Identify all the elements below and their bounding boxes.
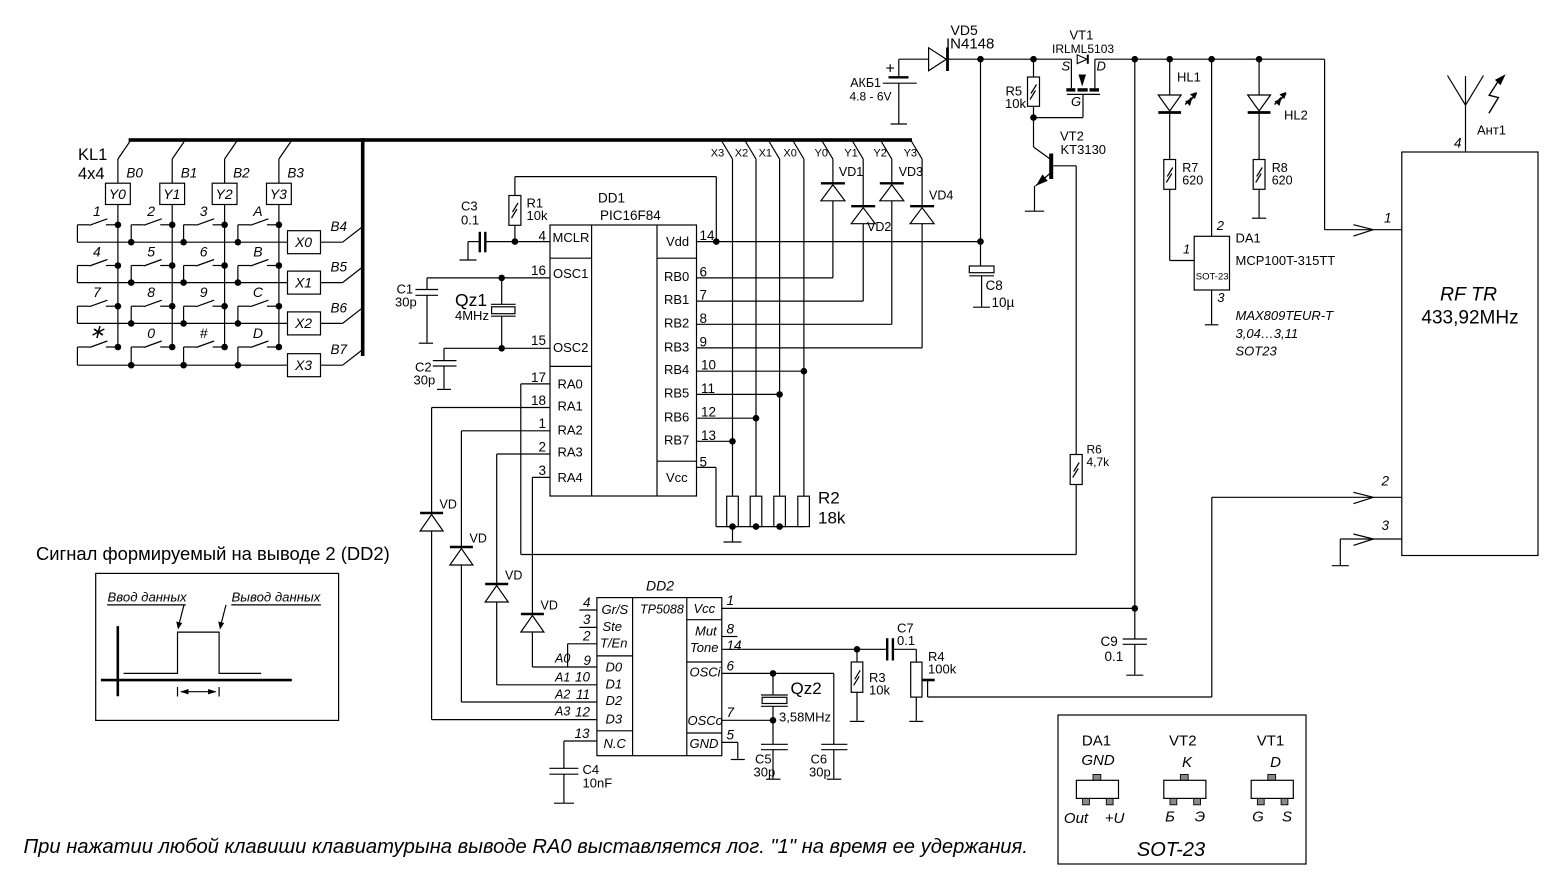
svg-text:Y3: Y3 bbox=[904, 148, 917, 160]
wire Y0 column bbox=[832, 159, 834, 183]
svg-text:KT3130: KT3130 bbox=[1061, 142, 1107, 157]
svg-text:7: 7 bbox=[727, 705, 735, 720]
resistor R1 10k bbox=[509, 196, 521, 226]
svg-text:TP5088: TP5088 bbox=[640, 603, 684, 617]
svg-text:VT1: VT1 bbox=[1070, 28, 1094, 43]
trimmer R4 100k bbox=[915, 649, 917, 662]
diode VD4 bbox=[910, 205, 934, 207]
wire RA2 bbox=[461, 430, 550, 432]
wire X2 column bbox=[755, 159, 757, 496]
svg-text:T/En: T/En bbox=[600, 636, 627, 651]
resistor R6 4,7k bbox=[1070, 455, 1082, 485]
svg-text:8: 8 bbox=[700, 311, 708, 326]
svg-text:9: 9 bbox=[583, 653, 591, 668]
wire rail to RF pin1 bbox=[1324, 59, 1326, 230]
svg-text:30p: 30p bbox=[754, 765, 776, 780]
svg-text:10k: 10k bbox=[527, 208, 548, 223]
svg-text:DA1: DA1 bbox=[1082, 733, 1111, 750]
wire Vdd pin14 to power bbox=[697, 241, 981, 243]
wire R8 to ground bbox=[1258, 189, 1260, 217]
svg-text:10k: 10k bbox=[1005, 96, 1026, 111]
svg-text:PIC16F84: PIC16F84 bbox=[600, 208, 661, 223]
svg-text:2: 2 bbox=[582, 629, 591, 644]
wire RB0 bbox=[697, 277, 833, 279]
key B (switch) bbox=[267, 265, 279, 267]
key 0 (switch) bbox=[160, 346, 172, 348]
wire Y1 column vertical bbox=[171, 205, 173, 348]
SOT-23 package drawing (VT1) bbox=[1268, 775, 1276, 781]
svg-text:18: 18 bbox=[531, 393, 546, 408]
svg-text:Y2: Y2 bbox=[873, 148, 886, 160]
pin 7 OSCo wire bbox=[722, 719, 773, 721]
svg-text:GND: GND bbox=[1081, 752, 1115, 769]
svg-text:6: 6 bbox=[727, 659, 735, 674]
ground (DD2 GND) bbox=[731, 759, 745, 761]
svg-text:OSCi: OSCi bbox=[690, 665, 722, 680]
svg-text:7: 7 bbox=[93, 284, 102, 300]
svg-text:RB2: RB2 bbox=[664, 315, 689, 330]
svg-text:1: 1 bbox=[1183, 242, 1190, 257]
svg-text:KL1: KL1 bbox=[78, 146, 107, 164]
svg-text:SOT23: SOT23 bbox=[1236, 344, 1278, 359]
diode VD (on RA4 line) bbox=[521, 613, 544, 615]
svg-text:C: C bbox=[253, 284, 264, 300]
wire RA0 pin17 bbox=[521, 383, 550, 385]
ground (battery) bbox=[891, 123, 908, 125]
node X2: slant + label bbox=[746, 142, 757, 160]
svg-text:B0: B0 bbox=[126, 166, 143, 181]
svg-text:0.1: 0.1 bbox=[897, 633, 915, 648]
svg-text:10k: 10k bbox=[869, 683, 890, 698]
X0 box bbox=[288, 231, 321, 254]
svg-text:RA0: RA0 bbox=[558, 377, 583, 392]
svg-text:433,92MHz: 433,92MHz bbox=[1421, 308, 1518, 329]
voltage supervisor DA1 (SOT-23 box) bbox=[1194, 236, 1229, 290]
svg-text:Vdd: Vdd bbox=[666, 234, 689, 249]
ground (DA1 pin3) bbox=[1205, 324, 1219, 326]
svg-text:2: 2 bbox=[1216, 218, 1225, 233]
capacitor C9 0.1 bbox=[1123, 638, 1147, 640]
wire RB3 bbox=[697, 347, 923, 349]
node Y2: slant + label bbox=[881, 142, 892, 160]
svg-text:8: 8 bbox=[147, 284, 155, 300]
svg-text:Э: Э bbox=[1195, 809, 1205, 826]
wire X3 to bus / B7 bbox=[321, 364, 343, 366]
svg-text:VD4: VD4 bbox=[929, 189, 953, 203]
svg-text:VD: VD bbox=[541, 599, 558, 613]
svg-text:0.1: 0.1 bbox=[1105, 649, 1124, 664]
svg-text:RB0: RB0 bbox=[664, 269, 689, 284]
svg-text:B3: B3 bbox=[287, 166, 304, 181]
VT2 emitter with arrow bbox=[1036, 173, 1052, 186]
svg-text:4: 4 bbox=[583, 595, 591, 610]
wire X3 column bbox=[732, 159, 734, 496]
node X1: slant + label bbox=[769, 142, 780, 160]
svg-text:RA4: RA4 bbox=[558, 470, 583, 485]
svg-text:R2: R2 bbox=[818, 489, 840, 508]
LED HL2 emission arrows bbox=[1275, 94, 1287, 105]
ground (C5) bbox=[766, 778, 781, 780]
svg-text:RA3: RA3 bbox=[558, 445, 583, 460]
resistor network R2 18k bbox=[727, 496, 739, 526]
VT1 substrate arrow bbox=[1079, 75, 1087, 87]
ground (C1) bbox=[419, 342, 433, 344]
svg-text:6: 6 bbox=[700, 265, 708, 280]
svg-text:X2: X2 bbox=[294, 315, 312, 331]
svg-text:3,58MHz: 3,58MHz bbox=[779, 710, 831, 725]
wire OSC2 pin15 bbox=[444, 347, 550, 349]
svg-text:G: G bbox=[1252, 809, 1264, 826]
capacitor C8 10u electrolytic bbox=[969, 266, 994, 273]
node Y0: slant + label bbox=[822, 142, 833, 160]
svg-text:Сигнал формируемый на выводе 2: Сигнал формируемый на выводе 2 (DD2) bbox=[36, 543, 390, 564]
svg-text:+: + bbox=[886, 61, 895, 78]
ground (RF pin3) bbox=[1332, 565, 1349, 567]
svg-text:DD1: DD1 bbox=[598, 191, 625, 206]
wire Y3 column bbox=[921, 159, 923, 206]
svg-text:1: 1 bbox=[93, 203, 101, 219]
wire X2 to bus / B6 bbox=[321, 322, 343, 324]
wire RA3 bbox=[497, 453, 550, 455]
svg-text:S: S bbox=[1282, 809, 1292, 826]
svg-text:X0: X0 bbox=[294, 234, 312, 250]
svg-text:620: 620 bbox=[1182, 174, 1203, 188]
svg-text:2: 2 bbox=[538, 440, 546, 455]
resistor R3 10k bbox=[856, 649, 858, 662]
LED HL1 emission arrows bbox=[1185, 94, 1197, 105]
RF pin2 arrow bbox=[1353, 492, 1373, 497]
wire RA1 diode to A3 bbox=[431, 531, 433, 720]
svg-text:MAX809TEUR-T: MAX809TEUR-T bbox=[1236, 308, 1335, 323]
antenna Ant1 bbox=[1465, 76, 1467, 152]
svg-text:3: 3 bbox=[200, 203, 208, 219]
svg-text:VT2: VT2 bbox=[1169, 733, 1197, 750]
LED HL1 bbox=[1169, 59, 1171, 95]
wire rail after VT1 drain bbox=[1095, 58, 1325, 60]
svg-text:11: 11 bbox=[701, 381, 715, 396]
svg-text:IRLML5103: IRLML5103 bbox=[1052, 42, 1114, 56]
svg-text:3,04…3,11: 3,04…3,11 bbox=[1236, 326, 1299, 341]
node Y1: slant + label bbox=[853, 142, 864, 160]
svg-text:B4: B4 bbox=[331, 219, 348, 234]
svg-text:4: 4 bbox=[93, 244, 101, 260]
X1 box bbox=[288, 271, 321, 294]
svg-text:X0: X0 bbox=[783, 148, 796, 160]
svg-text:8: 8 bbox=[727, 622, 735, 637]
svg-text:N.C: N.C bbox=[604, 736, 627, 751]
svg-text:5: 5 bbox=[727, 728, 735, 743]
svg-text:X3: X3 bbox=[294, 357, 312, 373]
svg-text:RA1: RA1 bbox=[558, 399, 583, 414]
svg-text:4: 4 bbox=[1454, 136, 1462, 151]
diode VD5 IN4148 bbox=[929, 48, 947, 71]
svg-text:S: S bbox=[1062, 59, 1071, 74]
wire X0 to bus / B4 bbox=[321, 241, 343, 243]
keypad column Y1 / net B1 bbox=[172, 142, 184, 160]
svg-text:X1: X1 bbox=[294, 274, 312, 290]
svg-text:Ввод данных: Ввод данных bbox=[108, 590, 188, 605]
RF transmitter module box bbox=[1402, 152, 1538, 556]
svg-text:RB3: RB3 bbox=[664, 339, 689, 354]
wire RA3 diode to A1 bbox=[496, 602, 498, 685]
keypad row 2: row wire to X1 bbox=[77, 282, 287, 284]
svg-text:SOT-23: SOT-23 bbox=[1196, 272, 1229, 283]
svg-text:SOT-23: SOT-23 bbox=[1137, 839, 1205, 861]
svg-text:Mut: Mut bbox=[695, 624, 718, 639]
svg-text:Вывод данных: Вывод данных bbox=[232, 590, 321, 605]
node X3: slant + label bbox=[722, 142, 733, 160]
wire RB6 bbox=[697, 417, 757, 419]
svg-text:RB7: RB7 bbox=[664, 433, 689, 448]
capacitor C1 30p bbox=[426, 278, 428, 290]
svg-text:10: 10 bbox=[575, 670, 591, 685]
timing diagram box bbox=[96, 573, 339, 720]
pin 5 GND wire bbox=[722, 741, 738, 743]
svg-text:A1: A1 bbox=[554, 671, 570, 685]
key A (switch) bbox=[267, 224, 279, 226]
diode VD1 bbox=[821, 182, 845, 184]
SOT-23 package drawing (VT2) bbox=[1180, 775, 1188, 781]
svg-text:4,7k: 4,7k bbox=[1087, 455, 1111, 469]
key 7 (switch) bbox=[106, 305, 118, 307]
resistor R8 620 bbox=[1253, 160, 1265, 190]
svg-text:X3: X3 bbox=[711, 148, 724, 160]
svg-text:620: 620 bbox=[1272, 174, 1293, 188]
svg-text:АКБ1: АКБ1 bbox=[850, 76, 881, 90]
svg-text:C9: C9 bbox=[1101, 634, 1118, 649]
svg-text:B: B bbox=[253, 244, 262, 260]
ground (R8) bbox=[1252, 217, 1266, 219]
svg-text:RB4: RB4 bbox=[664, 362, 689, 377]
svg-text:RB6: RB6 bbox=[664, 409, 689, 424]
svg-text:B5: B5 bbox=[331, 260, 348, 275]
key 6 (switch) bbox=[213, 265, 225, 267]
ground (C9) bbox=[1126, 674, 1143, 676]
RF pin1 arrow bbox=[1353, 225, 1373, 230]
wire power rail VD5 to VT1 bbox=[949, 58, 1072, 60]
svg-text:3: 3 bbox=[1217, 290, 1225, 305]
keypad column Y3 / net B3 bbox=[279, 142, 291, 160]
svg-text:GND: GND bbox=[690, 736, 719, 751]
svg-text:14: 14 bbox=[727, 638, 742, 653]
key 9 (switch) bbox=[213, 305, 225, 307]
pin 4 Gr/S stub bbox=[579, 609, 597, 611]
key 8 (switch) bbox=[160, 305, 172, 307]
svg-text:D0: D0 bbox=[606, 660, 623, 675]
IC DD2 box bbox=[597, 598, 722, 756]
bus: thick vertical keypad bus bbox=[361, 138, 365, 356]
node X0: slant + label bbox=[793, 142, 804, 160]
svg-text:B6: B6 bbox=[331, 300, 348, 315]
svg-text:2: 2 bbox=[1381, 474, 1390, 489]
wire RB1 bbox=[697, 300, 864, 302]
svg-text:4MHz: 4MHz bbox=[455, 308, 489, 323]
ground (C6) bbox=[827, 778, 842, 780]
wire OSC1 pin16 bbox=[427, 277, 550, 279]
svg-text:13: 13 bbox=[574, 726, 590, 741]
wire Y2 column bbox=[891, 159, 893, 183]
svg-text:Y0: Y0 bbox=[815, 148, 828, 160]
svg-text:100k: 100k bbox=[928, 662, 957, 677]
key * (switch) bbox=[106, 346, 118, 348]
svg-text:∗: ∗ bbox=[89, 322, 105, 343]
ground (R2 rail) bbox=[732, 527, 734, 542]
pin 2 T/En wire bbox=[568, 643, 597, 645]
diode VD3 bbox=[880, 182, 904, 184]
resistor R5 10k bbox=[1033, 59, 1035, 77]
svg-text:1: 1 bbox=[727, 593, 735, 608]
svg-text:14: 14 bbox=[700, 228, 716, 243]
key # (switch) bbox=[213, 346, 225, 348]
svg-text:VD2: VD2 bbox=[867, 220, 891, 234]
pulse width dimension bbox=[177, 687, 179, 697]
wire RA2 diode to A2 bbox=[460, 565, 462, 702]
crystal Qz2 3,58MHz bbox=[772, 673, 774, 695]
timing axes bbox=[117, 626, 120, 696]
wire RF pin2 to R4 tap bbox=[1212, 496, 1402, 498]
svg-text:MCLR: MCLR bbox=[553, 230, 590, 245]
keypad row 4: row wire to X3 bbox=[77, 364, 287, 366]
svg-text:Gr/S: Gr/S bbox=[602, 602, 629, 617]
LED HL2 bbox=[1258, 59, 1260, 95]
X3 box bbox=[288, 354, 321, 377]
svg-text:D: D bbox=[253, 325, 263, 341]
wire rail to DA1 pin2 bbox=[1211, 59, 1213, 236]
svg-text:DA1: DA1 bbox=[1236, 231, 1261, 246]
keypad column Y0 / net B0 bbox=[118, 142, 130, 160]
pin 13 N.C wire to C4 bbox=[564, 740, 597, 742]
svg-text:Out: Out bbox=[1064, 810, 1089, 827]
key 2 (switch) bbox=[160, 224, 172, 226]
svg-text:D3: D3 bbox=[606, 712, 623, 727]
svg-text:RA2: RA2 bbox=[558, 423, 583, 438]
svg-text:Y1: Y1 bbox=[163, 186, 180, 202]
capacitor C2 30p bbox=[443, 348, 445, 360]
wire Y1 column bbox=[862, 159, 864, 206]
diode VD (on RA3 line) bbox=[485, 583, 508, 585]
svg-text:G: G bbox=[1071, 94, 1081, 109]
svg-text:OSC1: OSC1 bbox=[553, 266, 588, 281]
wire RA0 to R6 bbox=[521, 554, 1076, 556]
SOT-23 panel box bbox=[1058, 715, 1306, 864]
svg-text:C3: C3 bbox=[461, 199, 478, 214]
wire RA1 bbox=[432, 407, 550, 409]
wire R1 top to pin14 bbox=[514, 177, 516, 196]
svg-text:RB5: RB5 bbox=[664, 385, 689, 400]
ground (R4) bbox=[909, 720, 923, 722]
svg-text:1: 1 bbox=[538, 416, 546, 431]
svg-text:D1: D1 bbox=[606, 677, 623, 692]
diode VD (on RA1 line) bbox=[420, 512, 443, 514]
svg-text:VD: VD bbox=[505, 569, 522, 583]
svg-text:При нажатии любой клавиши клав: При нажатии любой клавиши клавиатурына в… bbox=[24, 836, 1028, 858]
wire Vdd feed down to C8 bbox=[980, 59, 982, 266]
resistor R7 620 bbox=[1164, 160, 1176, 190]
svg-text:12: 12 bbox=[575, 705, 591, 720]
node Y3: slant + label bbox=[912, 142, 923, 160]
svg-text:MCP100T-315TT: MCP100T-315TT bbox=[1236, 253, 1336, 268]
VT1 gate bbox=[1067, 93, 1100, 95]
wire RF pin3 to ground bbox=[1340, 538, 1402, 540]
ground (VT2 emitter) bbox=[1025, 210, 1044, 212]
svg-text:3: 3 bbox=[583, 612, 591, 627]
key 1 (switch) bbox=[106, 224, 118, 226]
capacitor C6 30p bbox=[833, 673, 835, 744]
wire R6 bottom to RA0 line bbox=[1075, 485, 1077, 555]
keypad row 3: row wire to X2 bbox=[77, 322, 287, 324]
svg-text:30p: 30p bbox=[395, 295, 417, 310]
svg-text:5: 5 bbox=[147, 244, 155, 260]
svg-text:7: 7 bbox=[700, 288, 708, 303]
wire RB2 bbox=[697, 323, 892, 325]
key 3 (switch) bbox=[213, 224, 225, 226]
antenna RF bolt bbox=[1489, 81, 1499, 113]
svg-text:Ант1: Ант1 bbox=[1477, 123, 1506, 138]
wire RB4 bbox=[697, 370, 804, 372]
wire switched rail down to C9 bbox=[1134, 59, 1136, 639]
svg-text:11: 11 bbox=[576, 687, 590, 702]
pin 8 Mut stub bbox=[722, 636, 738, 638]
svg-text:Qz2: Qz2 bbox=[791, 679, 822, 698]
svg-text:Y0: Y0 bbox=[109, 186, 126, 202]
wire Vcc pin5 (DD1) to R2 rail bbox=[697, 466, 717, 468]
wire X0 column bbox=[803, 159, 805, 496]
capacitor C7 0.1 bbox=[886, 638, 888, 660]
svg-text:D2: D2 bbox=[606, 693, 623, 708]
diode VD (on RA2 line) bbox=[450, 546, 473, 548]
capacitor C3 0.1 bbox=[485, 241, 550, 243]
wire R7 to DA1 pin1 bbox=[1169, 189, 1171, 260]
crystal Qz1 4MHz bbox=[501, 278, 503, 304]
svg-text:Tone: Tone bbox=[690, 640, 718, 655]
svg-text:X1: X1 bbox=[759, 148, 772, 160]
svg-text:VD: VD bbox=[470, 532, 487, 546]
wire X1 to bus / B5 bbox=[321, 282, 343, 284]
wire X1 column bbox=[779, 159, 781, 496]
svg-text:6: 6 bbox=[200, 244, 208, 260]
wire RA4 diode to A0 bbox=[531, 632, 533, 667]
svg-text:10µ: 10µ bbox=[992, 295, 1015, 310]
svg-text:15: 15 bbox=[531, 333, 546, 348]
ground (R3) bbox=[850, 720, 865, 722]
key 4 (switch) bbox=[106, 265, 118, 267]
wire RB5 bbox=[697, 393, 780, 395]
svg-text:Б: Б bbox=[1165, 809, 1175, 826]
ground (C8) bbox=[973, 306, 990, 308]
svg-text:17: 17 bbox=[531, 370, 546, 385]
svg-text:3: 3 bbox=[538, 463, 546, 478]
VT1 channel bars bbox=[1066, 88, 1075, 91]
svg-text:10nF: 10nF bbox=[583, 776, 613, 791]
keypad row 1: row wire to X0 bbox=[77, 241, 287, 243]
svg-text:RB1: RB1 bbox=[664, 292, 689, 307]
svg-text:IN4148: IN4148 bbox=[946, 36, 994, 53]
bus: thick horizontal keypad bus bbox=[129, 138, 912, 142]
VT1 body diode bbox=[1077, 55, 1087, 64]
svg-text:VT1: VT1 bbox=[1257, 733, 1285, 750]
svg-text:Qz1: Qz1 bbox=[455, 290, 487, 310]
svg-text:D: D bbox=[1097, 59, 1106, 74]
svg-text:HL1: HL1 bbox=[1177, 70, 1201, 85]
key 5 (switch) bbox=[160, 265, 172, 267]
svg-text:0.1: 0.1 bbox=[461, 213, 479, 228]
diode VD2 bbox=[851, 205, 875, 207]
svg-text:X2: X2 bbox=[735, 148, 748, 160]
svg-text:10: 10 bbox=[701, 358, 716, 373]
svg-text:13: 13 bbox=[701, 428, 716, 443]
svg-text:Y3: Y3 bbox=[270, 186, 287, 202]
svg-text:Y1: Y1 bbox=[844, 148, 857, 160]
